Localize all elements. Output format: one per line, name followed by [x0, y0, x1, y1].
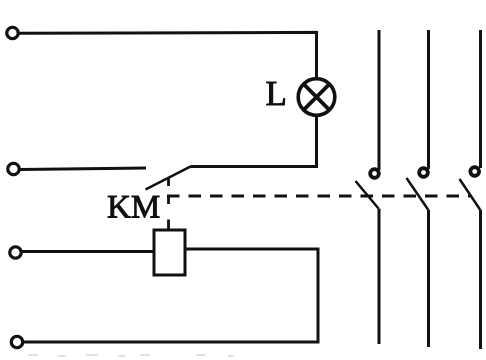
svg-text:L: L: [266, 74, 287, 113]
svg-text:KM: KM: [107, 190, 160, 226]
wire: bottom rail: [23, 341, 320, 344]
lamp L: [298, 79, 335, 116]
phase 3 upper conductor: [479, 30, 482, 168]
KM auxiliary contact blade: [146, 167, 191, 190]
phase 1 upper conductor: [378, 30, 381, 170]
wire: terminal 3 to coil: [22, 250, 153, 253]
phase 3 contact blade: [460, 179, 481, 210]
phase 2 contact blade: [407, 178, 429, 210]
phase 2 lower conductor: [427, 210, 430, 348]
wire: lamp bottom to KM auxiliary contact: [191, 116, 317, 167]
terminal 4: [11, 336, 22, 347]
mechanical link: vertical dashed to coil: [167, 177, 170, 229]
phase 2 upper conductor: [427, 30, 430, 169]
wire: terminal 1 to lamp top: [19, 32, 317, 78]
terminal 3: [10, 247, 21, 258]
phase 1 contact blade: [356, 181, 379, 209]
wire: terminal 2 to contact fixed end: [20, 168, 147, 170]
phase 3 lower conductor: [479, 210, 482, 350]
scan artifact: faint speckle row at bottom: [28, 355, 234, 356]
phase 3 fixed contact: [470, 167, 479, 176]
phase 1 lower conductor: [378, 209, 381, 345]
coil KM: [154, 230, 185, 275]
terminal 2: [8, 163, 19, 174]
wire: coil to bottom rail: [187, 249, 319, 342]
terminal 1: [7, 27, 18, 38]
phase 1 fixed contact: [370, 169, 379, 178]
mechanical link: horizontal dashed to main contacts: [167, 195, 470, 198]
phase 2 fixed contact: [419, 168, 428, 177]
